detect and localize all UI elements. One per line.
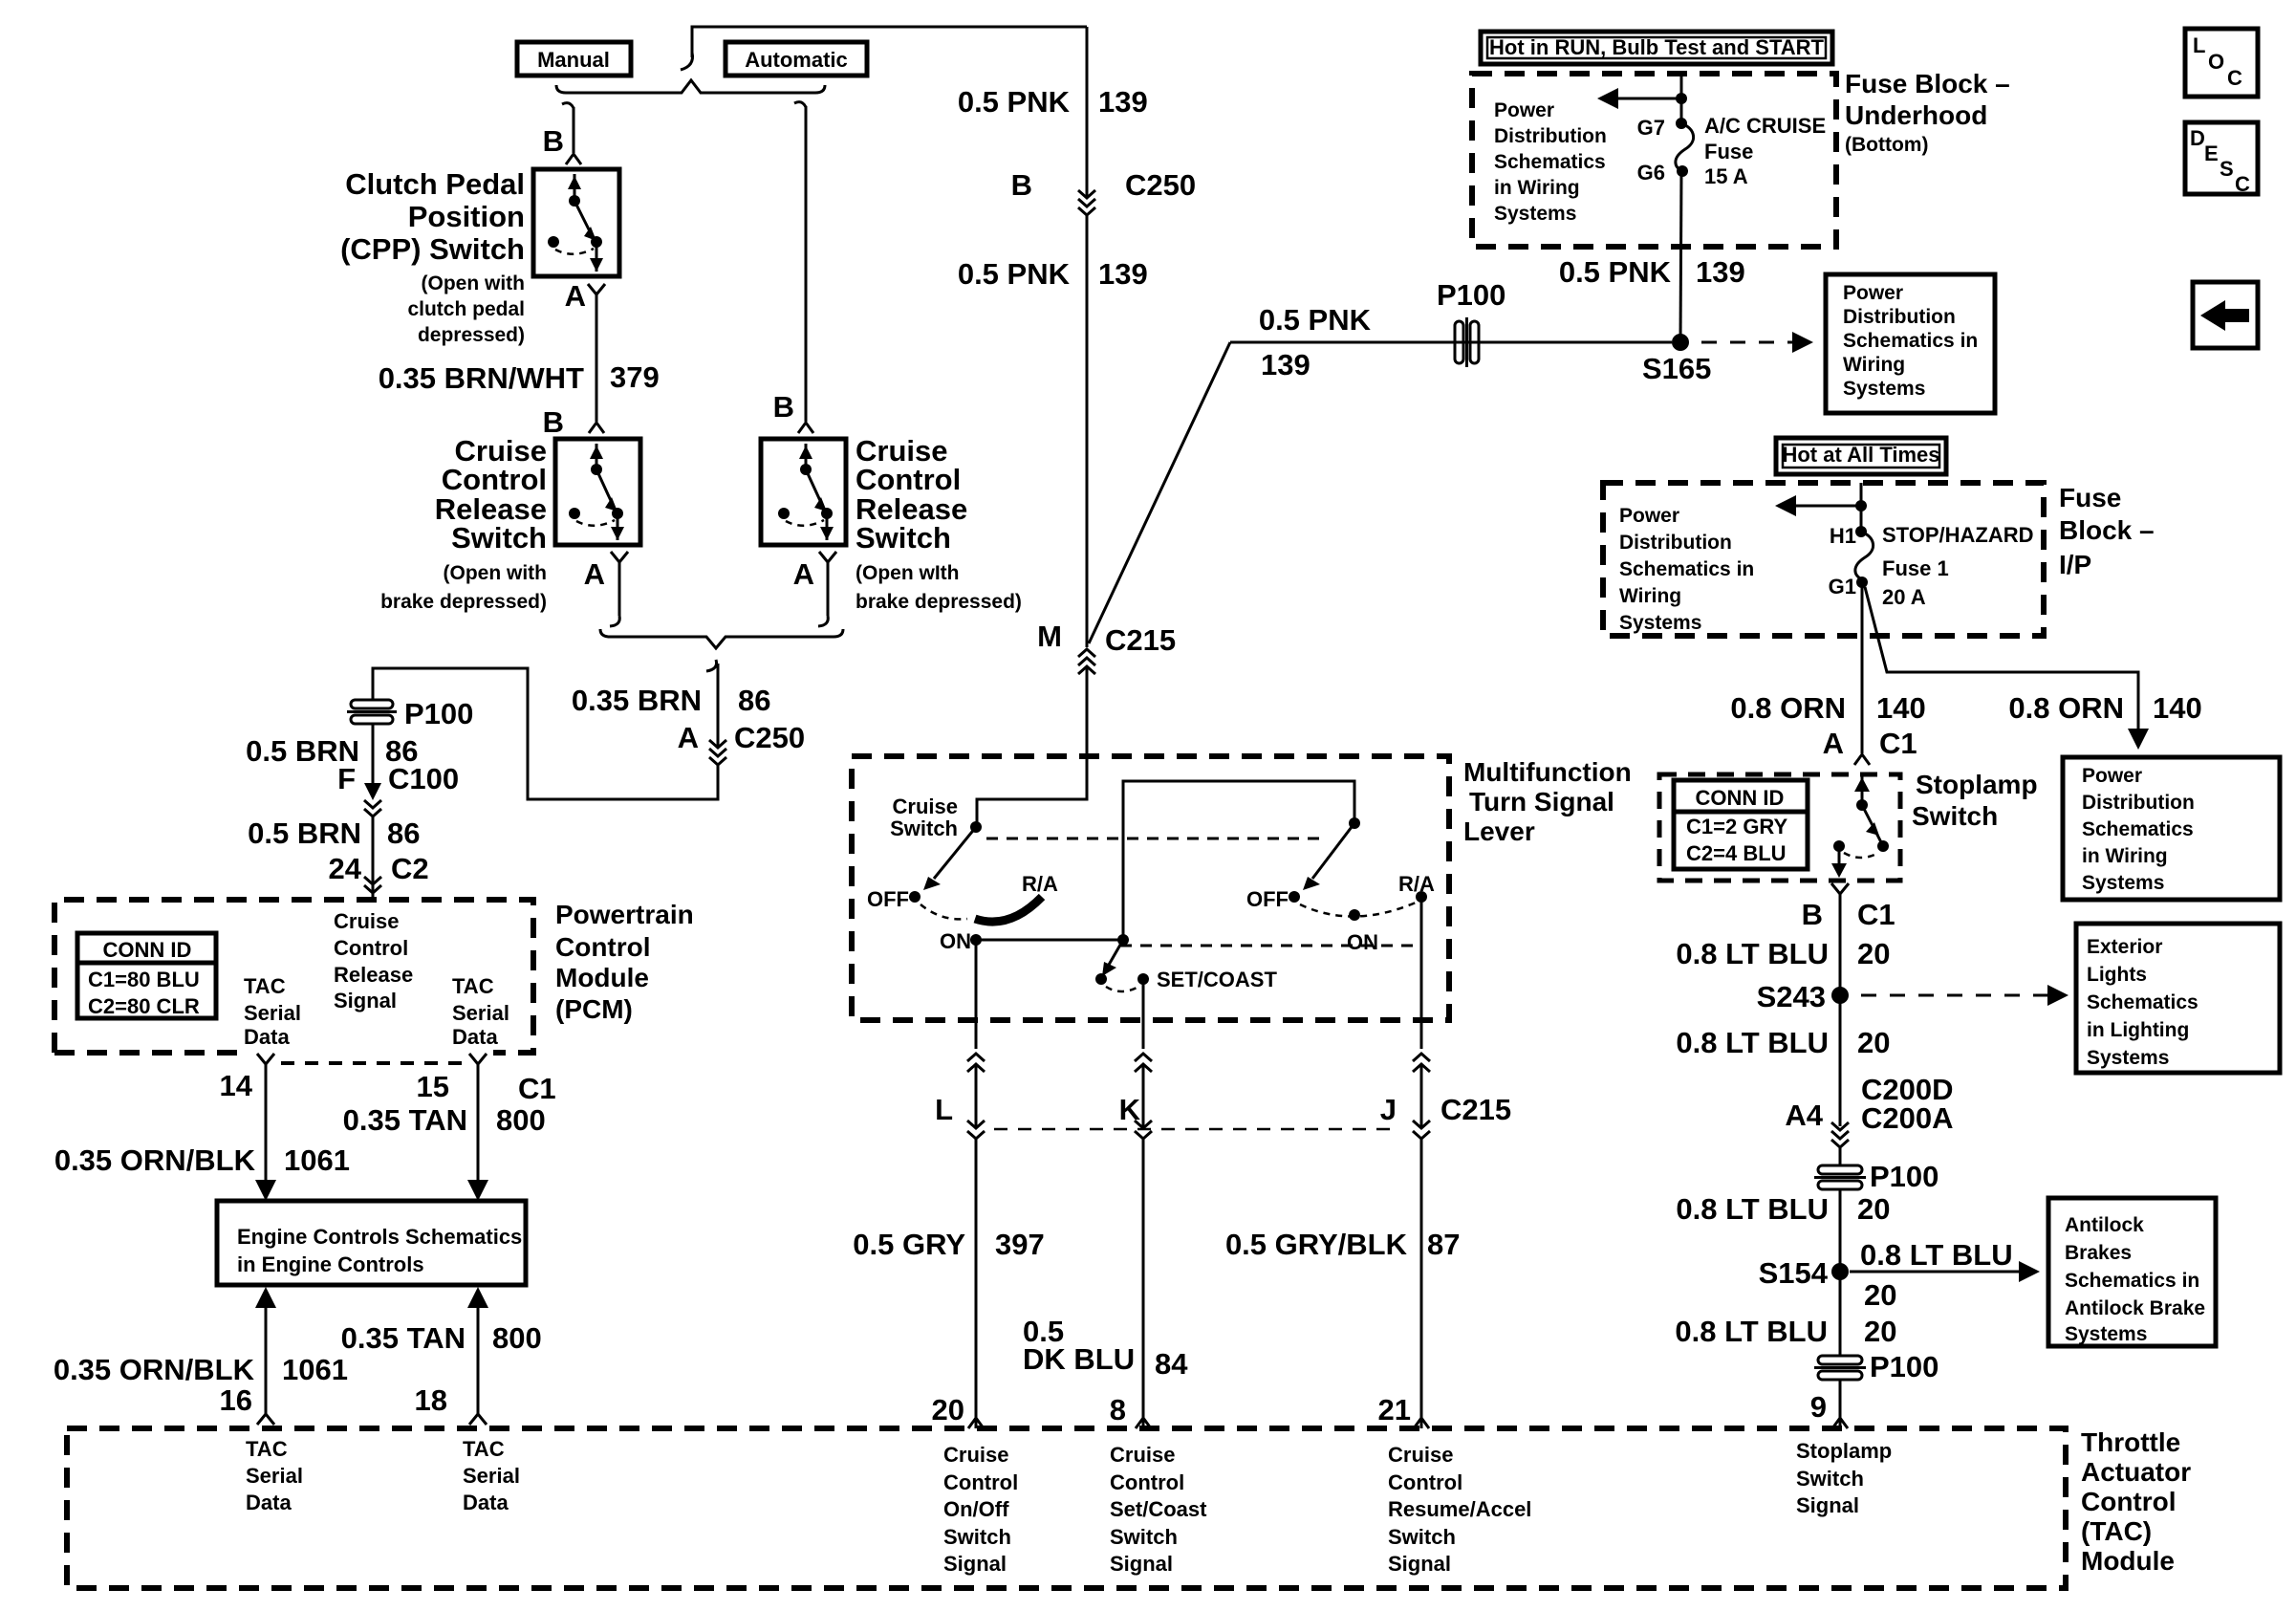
svg-text:Antilock: Antilock bbox=[2065, 1214, 2144, 1236]
svg-text:A: A bbox=[584, 557, 605, 591]
svg-text:C100: C100 bbox=[388, 762, 459, 795]
svg-text:20: 20 bbox=[1857, 937, 1890, 970]
svg-text:Control: Control bbox=[555, 932, 651, 962]
svg-text:15: 15 bbox=[417, 1070, 449, 1103]
svg-text:ON: ON bbox=[940, 929, 971, 953]
svg-text:(TAC): (TAC) bbox=[2081, 1516, 2152, 1546]
svg-text:20: 20 bbox=[1864, 1278, 1896, 1312]
svg-text:C1=2 GRY: C1=2 GRY bbox=[1686, 815, 1788, 838]
svg-text:B: B bbox=[543, 124, 564, 158]
svg-text:TAC: TAC bbox=[246, 1437, 288, 1461]
svg-text:Cruise: Cruise bbox=[943, 1443, 1008, 1467]
svg-text:Power: Power bbox=[1619, 505, 1679, 527]
svg-text:brake depressed): brake depressed) bbox=[380, 591, 547, 613]
svg-text:P100: P100 bbox=[404, 697, 473, 730]
svg-text:Switch: Switch bbox=[1388, 1525, 1456, 1549]
svg-text:Control: Control bbox=[1388, 1470, 1462, 1494]
svg-text:B: B bbox=[1011, 168, 1032, 202]
svg-text:Systems: Systems bbox=[2082, 872, 2164, 894]
svg-text:Systems: Systems bbox=[2065, 1323, 2147, 1345]
svg-text:20: 20 bbox=[1857, 1192, 1890, 1226]
svg-text:C1: C1 bbox=[518, 1072, 556, 1105]
svg-text:Switch: Switch bbox=[856, 521, 951, 555]
svg-text:379: 379 bbox=[610, 360, 660, 394]
svg-text:(Bottom): (Bottom) bbox=[1845, 134, 1928, 156]
svg-text:P100: P100 bbox=[1870, 1350, 1939, 1383]
svg-text:0.8 ORN: 0.8 ORN bbox=[1730, 691, 1846, 725]
svg-text:in Engine Controls: in Engine Controls bbox=[237, 1252, 424, 1276]
svg-text:0.8 ORN: 0.8 ORN bbox=[2008, 691, 2124, 725]
svg-text:0.35 ORN/BLK: 0.35 ORN/BLK bbox=[54, 1353, 255, 1386]
svg-text:Schematics in: Schematics in bbox=[1619, 558, 1754, 580]
svg-text:Module: Module bbox=[2081, 1546, 2175, 1576]
svg-text:J: J bbox=[1380, 1093, 1397, 1126]
svg-text:C2: C2 bbox=[391, 852, 429, 885]
svg-text:Schematics in: Schematics in bbox=[1843, 330, 1978, 352]
svg-text:C215: C215 bbox=[1440, 1093, 1511, 1126]
svg-text:Throttle: Throttle bbox=[2081, 1427, 2180, 1457]
svg-text:Schematics in: Schematics in bbox=[2065, 1270, 2199, 1292]
svg-text:C2=4 BLU: C2=4 BLU bbox=[1686, 841, 1787, 865]
svg-text:20: 20 bbox=[932, 1393, 964, 1426]
svg-text:A/C CRUISE: A/C CRUISE bbox=[1704, 114, 1826, 138]
svg-text:Brakes: Brakes bbox=[2065, 1242, 2132, 1264]
svg-text:Wiring: Wiring bbox=[1619, 585, 1681, 607]
svg-text:0.8 LT BLU: 0.8 LT BLU bbox=[1860, 1238, 2013, 1272]
svg-text:Schematics: Schematics bbox=[2082, 818, 2194, 840]
svg-text:Cruise: Cruise bbox=[893, 795, 958, 818]
svg-text:21: 21 bbox=[1378, 1393, 1411, 1426]
svg-text:0.35 BRN: 0.35 BRN bbox=[572, 684, 702, 717]
svg-text:Data: Data bbox=[246, 1491, 292, 1514]
svg-text:Hot in RUN, Bulb Test and STAR: Hot in RUN, Bulb Test and START bbox=[1489, 35, 1824, 59]
svg-text:OFF: OFF bbox=[867, 887, 909, 911]
svg-text:Powertrain: Powertrain bbox=[555, 900, 694, 929]
svg-text:Distribution: Distribution bbox=[1843, 306, 1956, 328]
svg-text:B: B bbox=[773, 390, 794, 424]
svg-text:0.35 ORN/BLK: 0.35 ORN/BLK bbox=[54, 1143, 256, 1177]
svg-text:Serial: Serial bbox=[452, 1001, 509, 1025]
svg-text:800: 800 bbox=[496, 1103, 546, 1137]
svg-text:C250: C250 bbox=[734, 721, 805, 754]
svg-text:0.35 TAN: 0.35 TAN bbox=[343, 1103, 467, 1137]
svg-text:F: F bbox=[337, 762, 356, 795]
svg-text:TAC: TAC bbox=[463, 1437, 505, 1461]
svg-text:0.5 PNK: 0.5 PNK bbox=[958, 257, 1071, 291]
svg-text:C: C bbox=[2227, 66, 2242, 90]
svg-text:Power: Power bbox=[1494, 99, 1554, 121]
svg-text:Cruise: Cruise bbox=[1388, 1443, 1453, 1467]
svg-text:SET/COAST: SET/COAST bbox=[1157, 968, 1277, 991]
svg-text:K: K bbox=[1119, 1093, 1141, 1126]
svg-text:140: 140 bbox=[1876, 691, 1926, 725]
svg-text:Resume/Accel: Resume/Accel bbox=[1388, 1497, 1531, 1521]
svg-text:20: 20 bbox=[1864, 1315, 1896, 1348]
svg-text:Schematics: Schematics bbox=[2087, 991, 2199, 1013]
svg-text:Distribution: Distribution bbox=[1619, 532, 1732, 554]
svg-text:C: C bbox=[2235, 172, 2250, 196]
svg-text:L: L bbox=[2193, 33, 2205, 57]
svg-text:Data: Data bbox=[463, 1491, 509, 1514]
svg-text:STOP/HAZARD: STOP/HAZARD bbox=[1882, 523, 2034, 547]
svg-text:C1: C1 bbox=[1879, 727, 1917, 760]
svg-text:9: 9 bbox=[1810, 1390, 1827, 1424]
svg-text:G6: G6 bbox=[1637, 161, 1665, 185]
svg-text:in Wiring: in Wiring bbox=[1494, 177, 1580, 199]
svg-text:Position: Position bbox=[408, 200, 525, 233]
svg-text:S243: S243 bbox=[1757, 980, 1826, 1013]
svg-text:Block –: Block – bbox=[2059, 515, 2155, 545]
svg-text:139: 139 bbox=[1098, 257, 1148, 291]
svg-text:Distribution: Distribution bbox=[1494, 125, 1607, 147]
svg-text:Stoplamp: Stoplamp bbox=[1796, 1439, 1892, 1463]
svg-text:0.35 TAN: 0.35 TAN bbox=[341, 1321, 466, 1355]
svg-text:84: 84 bbox=[1155, 1347, 1188, 1381]
svg-text:Engine Controls Schematics: Engine Controls Schematics bbox=[237, 1225, 522, 1249]
svg-text:0.5 PNK: 0.5 PNK bbox=[958, 85, 1071, 119]
svg-text:OFF: OFF bbox=[1246, 887, 1289, 911]
svg-text:Signal: Signal bbox=[1110, 1552, 1173, 1576]
svg-text:A4: A4 bbox=[1785, 1099, 1823, 1132]
svg-text:S165: S165 bbox=[1642, 352, 1711, 385]
svg-text:800: 800 bbox=[492, 1321, 542, 1355]
svg-text:Distribution: Distribution bbox=[2082, 792, 2195, 814]
svg-text:C1: C1 bbox=[1857, 898, 1895, 931]
svg-text:Module: Module bbox=[555, 963, 649, 992]
svg-text:Switch: Switch bbox=[943, 1525, 1011, 1549]
svg-text:Control: Control bbox=[442, 463, 547, 496]
svg-text:0.8 LT BLU: 0.8 LT BLU bbox=[1676, 1192, 1829, 1226]
svg-text:C2=80 CLR: C2=80 CLR bbox=[88, 994, 200, 1018]
svg-text:Release: Release bbox=[334, 963, 413, 987]
svg-text:(Open wIth: (Open wIth bbox=[856, 562, 960, 584]
svg-text:Control: Control bbox=[856, 463, 961, 496]
svg-text:Manual: Manual bbox=[537, 48, 610, 72]
svg-text:C250: C250 bbox=[1125, 168, 1196, 202]
svg-text:139: 139 bbox=[1261, 348, 1310, 381]
svg-text:brake depressed): brake depressed) bbox=[856, 591, 1022, 613]
svg-text:depressed): depressed) bbox=[418, 324, 525, 346]
svg-text:A: A bbox=[793, 557, 814, 591]
svg-text:Turn Signal: Turn Signal bbox=[1469, 787, 1614, 816]
svg-text:D: D bbox=[2190, 126, 2205, 150]
svg-text:P100: P100 bbox=[1437, 278, 1505, 312]
svg-text:Power: Power bbox=[2082, 765, 2142, 787]
svg-text:Control: Control bbox=[2081, 1487, 2177, 1516]
svg-text:clutch pedal: clutch pedal bbox=[407, 298, 525, 320]
svg-text:S: S bbox=[2220, 157, 2234, 181]
svg-text:L: L bbox=[935, 1093, 953, 1126]
svg-text:15 A: 15 A bbox=[1704, 164, 1748, 188]
svg-text:0.8 LT BLU: 0.8 LT BLU bbox=[1676, 1026, 1829, 1059]
svg-text:B: B bbox=[1802, 898, 1823, 931]
svg-text:Automatic: Automatic bbox=[745, 48, 848, 72]
svg-text:14: 14 bbox=[220, 1069, 253, 1102]
svg-text:R/A: R/A bbox=[1398, 872, 1435, 896]
svg-text:(CPP) Switch: (CPP) Switch bbox=[340, 232, 525, 266]
svg-text:Fuse Block –: Fuse Block – bbox=[1845, 69, 2010, 98]
svg-text:139: 139 bbox=[1098, 85, 1148, 119]
svg-text:Multifunction: Multifunction bbox=[1463, 757, 1632, 787]
svg-text:24: 24 bbox=[329, 852, 362, 885]
svg-text:Schematics: Schematics bbox=[1494, 151, 1606, 173]
svg-text:Hot at All Times: Hot at All Times bbox=[1782, 443, 1939, 467]
svg-text:Control: Control bbox=[334, 936, 408, 960]
svg-text:A: A bbox=[1823, 727, 1844, 760]
svg-text:(Open with: (Open with bbox=[422, 272, 526, 294]
svg-text:Power: Power bbox=[1843, 282, 1903, 304]
svg-text:0.8 LT BLU: 0.8 LT BLU bbox=[1675, 1315, 1828, 1348]
svg-text:20 A: 20 A bbox=[1882, 585, 1926, 609]
svg-text:CONN ID: CONN ID bbox=[1696, 786, 1785, 810]
svg-text:Clutch Pedal: Clutch Pedal bbox=[345, 167, 525, 201]
svg-text:Lights: Lights bbox=[2087, 964, 2147, 986]
svg-text:Systems: Systems bbox=[1494, 203, 1576, 225]
svg-text:C200A: C200A bbox=[1861, 1101, 1954, 1135]
svg-text:140: 140 bbox=[2153, 691, 2202, 725]
svg-text:in Lighting: in Lighting bbox=[2087, 1019, 2189, 1041]
svg-text:H1: H1 bbox=[1830, 524, 1856, 548]
svg-text:C215: C215 bbox=[1105, 623, 1176, 657]
svg-text:E: E bbox=[2204, 142, 2219, 165]
svg-text:S154: S154 bbox=[1759, 1256, 1829, 1290]
svg-text:0.5 PNK: 0.5 PNK bbox=[1259, 303, 1372, 337]
svg-text:Switch: Switch bbox=[1110, 1525, 1178, 1549]
svg-text:Signal: Signal bbox=[1388, 1552, 1451, 1576]
svg-text:Fuse: Fuse bbox=[2059, 483, 2121, 512]
svg-text:Wiring: Wiring bbox=[1843, 354, 1905, 376]
svg-text:Data: Data bbox=[244, 1025, 290, 1049]
svg-text:Antilock Brake: Antilock Brake bbox=[2065, 1297, 2205, 1319]
svg-text:0.5 PNK: 0.5 PNK bbox=[1559, 255, 1672, 289]
svg-text:A: A bbox=[565, 279, 586, 313]
svg-text:Serial: Serial bbox=[244, 1001, 301, 1025]
svg-text:Serial: Serial bbox=[463, 1464, 520, 1488]
svg-text:(PCM): (PCM) bbox=[555, 994, 633, 1024]
svg-text:Cruise: Cruise bbox=[1110, 1443, 1175, 1467]
svg-text:Systems: Systems bbox=[2087, 1047, 2169, 1069]
svg-text:86: 86 bbox=[738, 684, 770, 717]
svg-text:87: 87 bbox=[1427, 1228, 1460, 1261]
svg-text:Data: Data bbox=[452, 1025, 498, 1049]
svg-text:Switch: Switch bbox=[890, 816, 958, 840]
svg-text:Switch: Switch bbox=[1912, 801, 1998, 831]
svg-text:139: 139 bbox=[1696, 255, 1745, 289]
svg-text:A: A bbox=[678, 721, 699, 754]
svg-text:0.5 GRY: 0.5 GRY bbox=[853, 1228, 965, 1261]
svg-text:Underhood: Underhood bbox=[1845, 100, 1987, 130]
svg-text:Lever: Lever bbox=[1463, 816, 1535, 846]
svg-text:Cruise: Cruise bbox=[334, 909, 399, 933]
svg-text:20: 20 bbox=[1857, 1026, 1890, 1059]
svg-text:0.35 BRN/WHT: 0.35 BRN/WHT bbox=[379, 361, 584, 395]
svg-text:in Wiring: in Wiring bbox=[2082, 845, 2168, 867]
svg-text:Switch: Switch bbox=[1796, 1467, 1864, 1491]
svg-text:0.8 LT BLU: 0.8 LT BLU bbox=[1676, 937, 1829, 970]
svg-text:Exterior: Exterior bbox=[2087, 936, 2162, 958]
svg-text:Systems: Systems bbox=[1619, 612, 1701, 634]
svg-text:8: 8 bbox=[1110, 1393, 1126, 1426]
svg-text:P100: P100 bbox=[1870, 1160, 1939, 1193]
svg-text:Systems: Systems bbox=[1843, 378, 1925, 400]
svg-text:0.5 BRN: 0.5 BRN bbox=[248, 816, 361, 850]
svg-text:Fuse 1: Fuse 1 bbox=[1882, 556, 1949, 580]
svg-text:G1: G1 bbox=[1829, 575, 1856, 599]
svg-text:16: 16 bbox=[220, 1383, 252, 1417]
svg-text:Signal: Signal bbox=[943, 1552, 1007, 1576]
svg-text:Serial: Serial bbox=[246, 1464, 303, 1488]
svg-text:Stoplamp: Stoplamp bbox=[1916, 770, 2038, 799]
svg-text:G7: G7 bbox=[1637, 116, 1665, 140]
svg-text:Fuse: Fuse bbox=[1704, 140, 1753, 163]
svg-text:I/P: I/P bbox=[2059, 550, 2091, 579]
svg-text:Signal: Signal bbox=[1796, 1493, 1859, 1517]
svg-text:R/A: R/A bbox=[1022, 872, 1058, 896]
svg-text:Control: Control bbox=[1110, 1470, 1184, 1494]
svg-text:0.5 GRY/BLK: 0.5 GRY/BLK bbox=[1225, 1228, 1408, 1261]
svg-text:M: M bbox=[1037, 620, 1062, 653]
svg-text:1061: 1061 bbox=[282, 1353, 348, 1386]
svg-text:TAC: TAC bbox=[244, 974, 286, 998]
svg-text:Control: Control bbox=[943, 1470, 1018, 1494]
svg-text:Set/Coast: Set/Coast bbox=[1110, 1497, 1207, 1521]
svg-text:DK BLU: DK BLU bbox=[1023, 1342, 1135, 1376]
svg-text:TAC: TAC bbox=[452, 974, 494, 998]
svg-text:18: 18 bbox=[415, 1383, 447, 1417]
svg-text:O: O bbox=[2208, 50, 2224, 74]
svg-text:ON: ON bbox=[1347, 930, 1378, 954]
svg-text:On/Off: On/Off bbox=[943, 1497, 1009, 1521]
svg-text:Signal: Signal bbox=[334, 989, 397, 1012]
svg-text:1061: 1061 bbox=[284, 1143, 350, 1177]
svg-text:(Open with: (Open with bbox=[444, 562, 548, 584]
svg-text:C1=80 BLU: C1=80 BLU bbox=[88, 968, 200, 991]
svg-text:CONN ID: CONN ID bbox=[103, 938, 192, 962]
svg-text:397: 397 bbox=[995, 1228, 1045, 1261]
svg-text:86: 86 bbox=[387, 816, 420, 850]
svg-text:Actuator: Actuator bbox=[2081, 1457, 2191, 1487]
svg-text:Switch: Switch bbox=[451, 521, 547, 555]
